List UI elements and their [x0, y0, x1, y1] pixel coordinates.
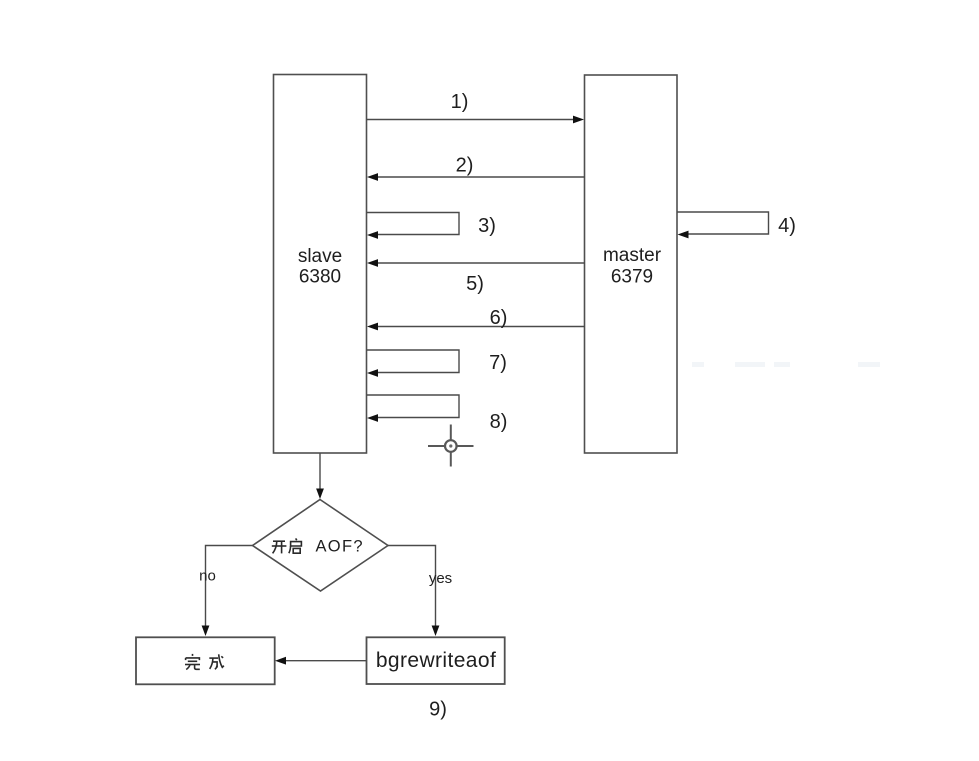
- svg-text:yes: yes: [429, 570, 452, 587]
- svg-text:8): 8): [490, 411, 508, 433]
- svg-text:7): 7): [489, 352, 507, 374]
- svg-text:6): 6): [490, 307, 508, 329]
- svg-text:5): 5): [466, 273, 484, 295]
- svg-text:2): 2): [456, 155, 474, 177]
- svg-text:4): 4): [778, 215, 796, 237]
- svg-text:9): 9): [429, 699, 447, 721]
- svg-text:6379: 6379: [611, 267, 653, 288]
- svg-text:3): 3): [478, 215, 496, 237]
- svg-text:master: master: [603, 245, 662, 266]
- svg-text:1): 1): [451, 91, 469, 113]
- svg-text:6380: 6380: [299, 267, 341, 288]
- svg-text:AOF?: AOF?: [316, 538, 364, 556]
- svg-text:no: no: [199, 568, 216, 585]
- svg-text:slave: slave: [298, 246, 342, 267]
- svg-text:bgrewriteaof: bgrewriteaof: [376, 649, 496, 672]
